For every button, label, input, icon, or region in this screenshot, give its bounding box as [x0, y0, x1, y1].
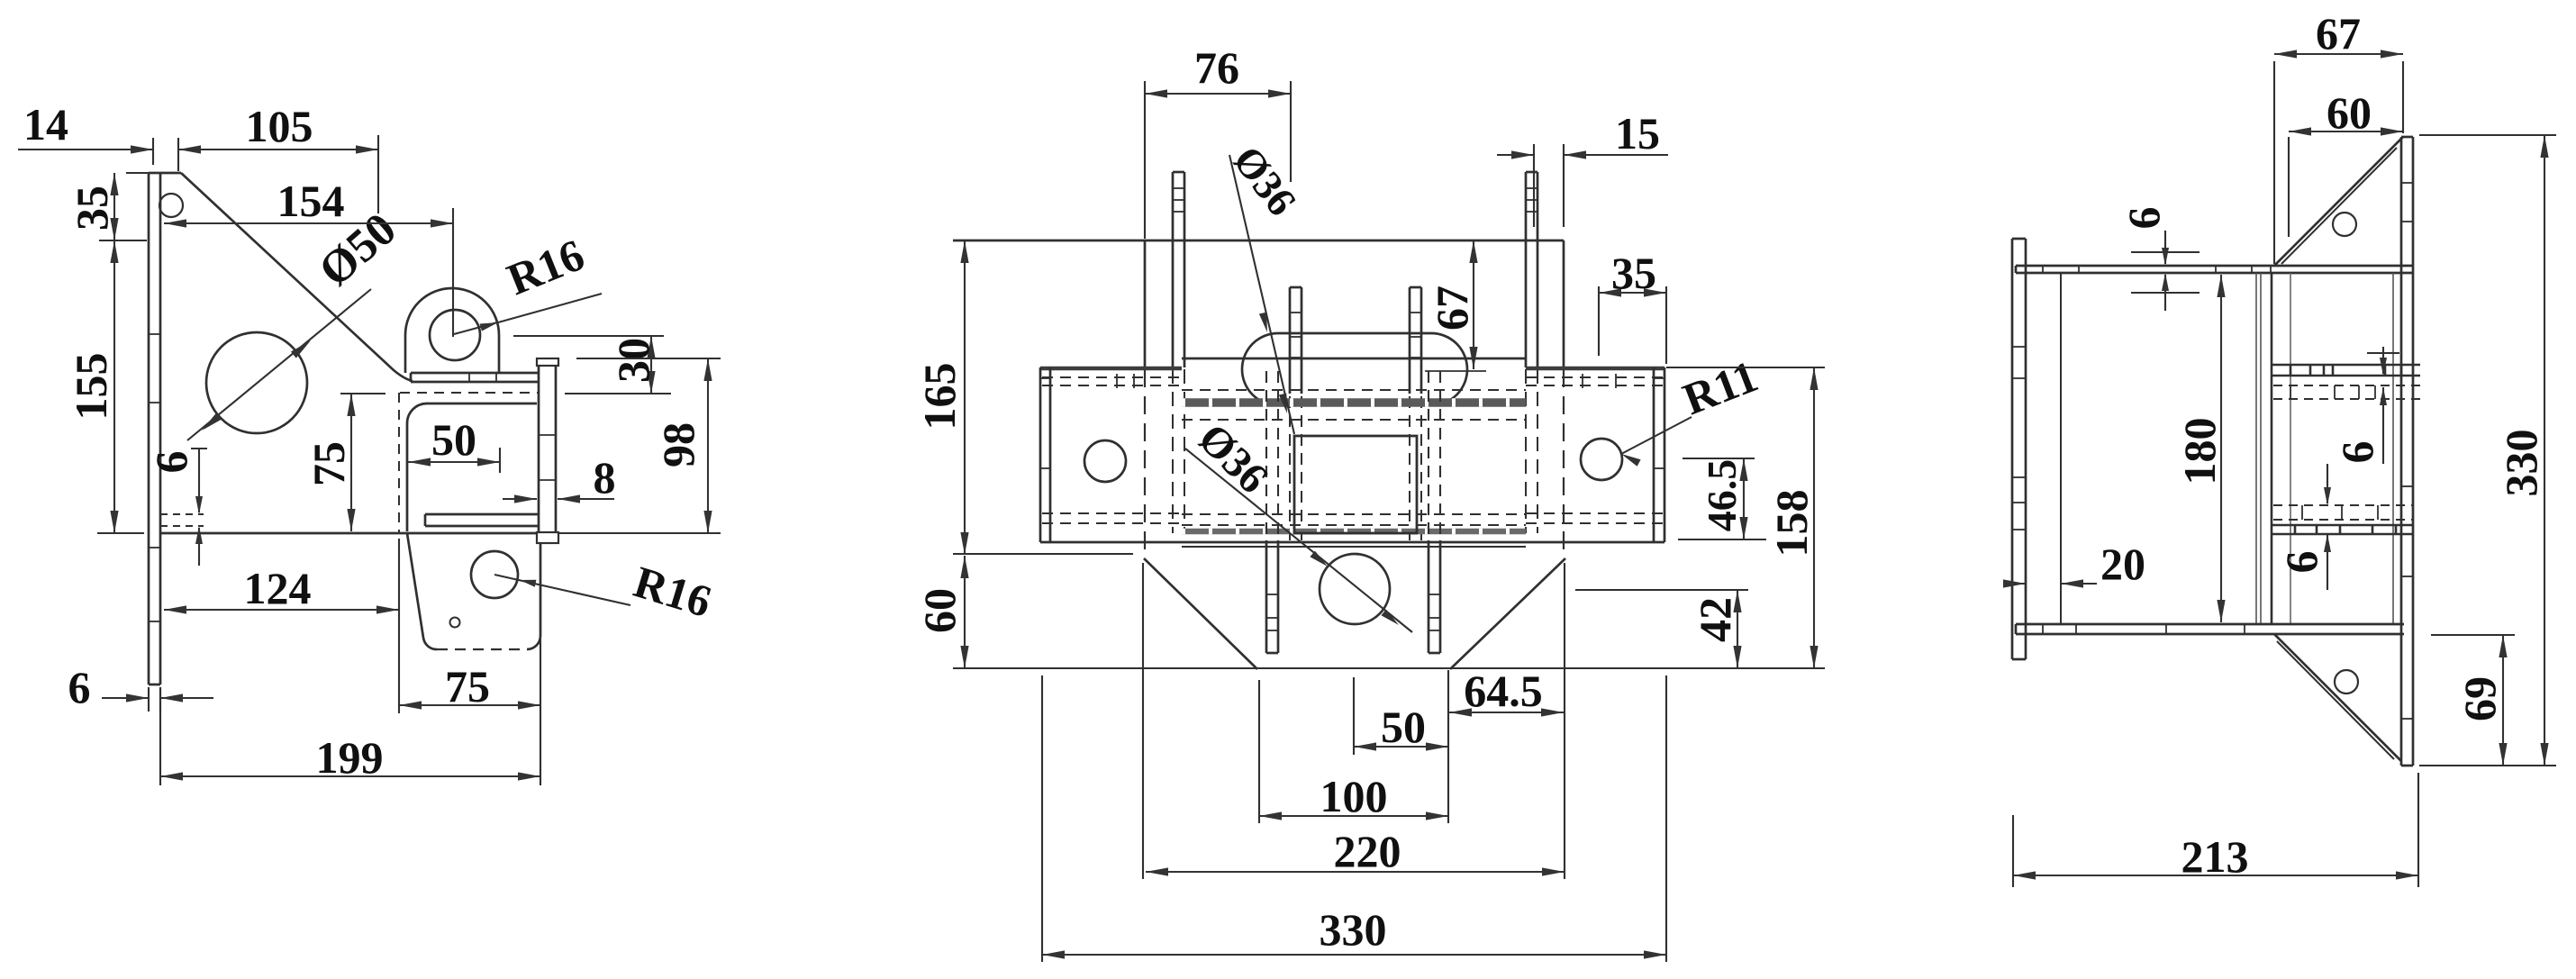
dimension 6 (top plate thickness) [2118, 207, 2200, 312]
bottom gusset hole [2335, 670, 2358, 693]
dimension 213 [2013, 773, 2418, 887]
dimension 50 [408, 414, 500, 473]
dimension 6 (bottom flange weld) [2276, 464, 2331, 590]
central square opening [1294, 436, 1417, 533]
dimension 330 (middle view) [1042, 675, 1666, 962]
dimension 6 (plate thickness) [68, 662, 214, 712]
svg-text:35: 35 [1611, 248, 1656, 298]
svg-text:220: 220 [1334, 826, 1401, 876]
dimension 64.5 [1449, 666, 1564, 717]
Ø36 slot leader [1229, 155, 1294, 434]
weld hidden lines at plate bottom [160, 514, 204, 526]
skirt bottom / base reference line [953, 667, 1825, 669]
svg-text:6: 6 [146, 451, 196, 474]
inner stud (left) [1290, 287, 1302, 540]
dimension 199 [160, 639, 540, 785]
svg-text:6: 6 [68, 662, 91, 712]
front plate top edge [1182, 358, 1526, 360]
svg-text:50: 50 [431, 414, 476, 465]
R16 leader (lower lug) [494, 575, 630, 605]
dimension 180 [2174, 275, 2226, 622]
gusset large hole Ø50 [206, 332, 307, 433]
beam right end cap [1654, 367, 1664, 542]
centre weld band (lower) [1182, 529, 1526, 535]
dimension 6 (weld size left) [146, 449, 207, 566]
tower left wall [1144, 240, 1147, 555]
centre weld band (upper) [1182, 398, 1526, 407]
lower bolt (right) [1429, 371, 1440, 653]
label Ø36 (slot) [1224, 138, 1305, 224]
svg-text:76: 76 [1194, 42, 1239, 93]
dimension 35 (middle view) [1599, 248, 1666, 364]
Ø50 diameter leader [187, 289, 371, 440]
svg-text:64.5: 64.5 [1464, 666, 1543, 716]
svg-text:155: 155 [66, 353, 116, 421]
svg-text:154: 154 [277, 176, 345, 226]
dimension 60 (right view) [2289, 87, 2403, 237]
svg-text:14: 14 [23, 99, 68, 150]
right wall (right view) [2401, 137, 2413, 766]
upper lug outline R16 [405, 288, 499, 373]
upper lug hole [430, 310, 480, 360]
svg-text:67: 67 [1427, 286, 1477, 331]
dimension 165 [914, 240, 969, 555]
dimension 69 [2431, 635, 2515, 766]
svg-text:180: 180 [2174, 418, 2225, 485]
svg-text:69: 69 [2454, 676, 2505, 721]
tall stud (right) [1526, 172, 1537, 533]
dimension 15 [1497, 108, 1668, 227]
skirt left slope [1144, 558, 1257, 669]
dimension 6 (top flange weld) [2332, 347, 2399, 464]
extension line to lug hole center [452, 326, 454, 337]
svg-text:6: 6 [2332, 441, 2382, 464]
channel top flange bar [411, 373, 539, 382]
svg-text:60: 60 [914, 588, 965, 633]
svg-text:20: 20 [2100, 539, 2145, 589]
svg-text:35: 35 [67, 186, 117, 231]
dimension 330 (right view) [2419, 135, 2556, 766]
dimension 105 [178, 101, 378, 213]
svg-text:75: 75 [304, 441, 354, 486]
dimension 30 [513, 336, 671, 394]
hidden edge dashes below flange [400, 392, 539, 394]
R16 leader (upper lug) [454, 294, 602, 334]
dimension 75 (channel height) [304, 394, 385, 531]
label R16 (upper) [500, 229, 591, 304]
dimension 158 [1666, 367, 1825, 668]
tower right wall [1563, 240, 1565, 555]
wing hidden lines bottom (left) [1042, 513, 1182, 523]
svg-text:330: 330 [2496, 430, 2546, 497]
inner face line (left of box) [2290, 273, 2291, 624]
dimension 35 [67, 173, 150, 240]
beam top flange (section) [2272, 365, 2420, 376]
beam bottom flange (section) [2272, 525, 2414, 534]
wing hidden lines top (left) [1042, 374, 1182, 388]
label Ø36 (hole) [1189, 414, 1277, 503]
dimension 98 [558, 358, 721, 533]
dimension 50 (stud spacing) [1354, 677, 1448, 755]
wing hidden lines bottom (right) [1526, 513, 1663, 523]
hidden lug plate edge (dashed vertical) [398, 393, 400, 533]
dimension 60 [914, 556, 969, 668]
gusset corner hole [159, 194, 183, 217]
centre hidden line 2 [1182, 419, 1526, 421]
beam bottom edge [1040, 541, 1664, 544]
top gusset hole [2333, 213, 2356, 236]
dimension 100 [1259, 670, 1448, 823]
centre hidden line bottom [1182, 514, 1526, 525]
label R11 and leader [1621, 350, 1764, 467]
lower bolt (left) [1266, 371, 1278, 653]
svg-text:165: 165 [914, 363, 965, 431]
left flange strip (right view) [2012, 239, 2026, 659]
label Ø50 [310, 204, 406, 297]
svg-text:42: 42 [1690, 597, 1740, 642]
bottom plate (right view) [2016, 624, 2404, 634]
dimension 220 [1143, 563, 1565, 879]
hidden lines below top flange [2273, 385, 2423, 399]
svg-text:75: 75 [445, 661, 490, 712]
lower lug hole R16 [471, 551, 518, 598]
inner wall line [2060, 273, 2062, 624]
dimension 155 [66, 240, 144, 533]
large hole Ø36 [1320, 554, 1390, 624]
wing top edge (right) [1526, 367, 1664, 371]
dimension 75 (lower lug width) [399, 539, 540, 713]
right wall plate (8 thick) [537, 358, 558, 543]
right wing hole R11 [1581, 439, 1622, 480]
skirt right slope [1450, 558, 1565, 669]
dimension 46.5 [1678, 458, 1766, 539]
dimension 14 [18, 99, 227, 171]
wing top edge (left) [1040, 367, 1182, 371]
svg-text:8: 8 [594, 452, 616, 503]
mid plate lines [2256, 273, 2272, 624]
svg-text:98: 98 [653, 422, 703, 467]
beam bottom inner edge [1182, 546, 1526, 548]
lower lug outline [407, 533, 540, 649]
left wing hole R11 [1084, 440, 1126, 482]
inner stud (right) [1410, 287, 1421, 540]
bottom gusset (right view) [2274, 634, 2401, 761]
channel web inner profile [407, 403, 537, 531]
svg-text:30: 30 [608, 338, 658, 383]
svg-text:6: 6 [2118, 207, 2169, 230]
dimension 124 [164, 563, 399, 614]
dimension 20 [2003, 539, 2145, 593]
165 bottom reference line [953, 553, 1133, 555]
svg-text:100: 100 [1320, 771, 1388, 821]
centre hidden line [1182, 389, 1526, 391]
svg-text:46.5: 46.5 [1699, 459, 1745, 532]
dimension 76 [1145, 42, 1291, 239]
wing hidden lines top (right) [1526, 374, 1663, 388]
top plate (right view) [2016, 266, 2413, 273]
obround slot Ø36 [1242, 333, 1467, 405]
top plate of tower [953, 240, 1564, 242]
svg-text:105: 105 [246, 101, 313, 151]
gusset plate top edge [160, 172, 181, 175]
beam left end cap [1040, 367, 1050, 542]
Ø36 hole leader [1185, 449, 1412, 632]
dimension 42 [1575, 590, 1748, 668]
svg-text:158: 158 [1766, 490, 1817, 557]
svg-text:50: 50 [1381, 702, 1426, 752]
svg-text:6: 6 [2276, 551, 2327, 574]
dimension 67 (right view) [2274, 8, 2403, 264]
svg-text:330: 330 [1320, 904, 1387, 955]
slot centre mark [1425, 370, 1486, 372]
dimension 154 [164, 176, 453, 326]
dimension 8 [503, 452, 616, 503]
svg-text:213: 213 [2181, 831, 2249, 882]
channel inner small plate (slot, edge view) [425, 514, 538, 526]
svg-text:15: 15 [1615, 108, 1660, 159]
top gusset (right view) [2274, 137, 2403, 266]
dimension 67 [1427, 240, 1478, 369]
svg-text:124: 124 [244, 563, 312, 613]
gusset hypotenuse [181, 173, 413, 381]
svg-text:67: 67 [2316, 8, 2361, 59]
svg-text:199: 199 [316, 732, 384, 783]
channel bottom edge [160, 532, 537, 535]
tall stud (left) [1173, 172, 1184, 533]
label R16 (lower) [629, 556, 718, 627]
lower lug small hole [450, 618, 460, 628]
back plate (left view vertical plate, edge view) [149, 173, 160, 684]
svg-text:60: 60 [2327, 87, 2372, 138]
hidden lines above bottom flange [2273, 505, 2414, 520]
inner face line (right box) [2392, 273, 2394, 624]
